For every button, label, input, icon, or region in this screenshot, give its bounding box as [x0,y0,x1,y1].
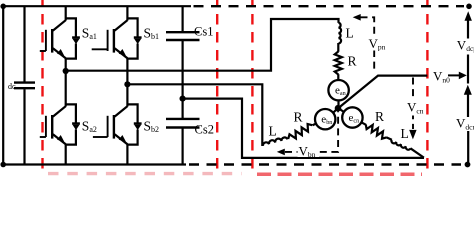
svg-text:L: L [346,26,354,41]
wire S_b2 emitter to bottom bus [126,144,128,165]
measure V_bn dashed path with arrow [285,112,338,152]
node A junction dot [63,68,69,74]
node: bottom-right dot at end of dashed bus [465,162,471,168]
svg-text:Cs1: Cs1 [194,24,213,38]
wire S_b1 gate lead [92,48,108,50]
wire e_an to star node [337,99,339,108]
svg-text:R: R [294,110,303,125]
wire S_a1 collector [65,6,67,20]
wire S_b1 collector [126,6,128,20]
wire neutral diagonal from star node [338,76,427,109]
svg-text:L: L [269,123,277,138]
wire L to bottom corner phase C [410,148,424,157]
wire S_a2 emitter to bottom bus [65,144,67,165]
wire S_a1 emitter to node A [65,58,67,72]
transistor S_b2 (IGBT with antiparallel diode) [108,104,142,144]
wire: top dc bus solid [3,5,191,7]
wire phase B from node B [127,84,262,146]
measure V_cn dashed arrow [412,78,414,130]
capacitor dc-link (left) [14,6,35,164]
svg-text:L: L [401,126,409,141]
wire: bottom dc bus solid [3,163,186,165]
measure V_n0 arrow [448,74,461,76]
wire S_b2 gate lead [93,136,108,138]
resistor R phase A [335,52,342,75]
capacitor Cs1 [166,6,200,118]
svg-text:Cs2: Cs2 [195,122,214,136]
svg-text:R: R [375,109,384,124]
wire star to e_bn [327,108,339,119]
inductor L phase A [339,23,342,44]
wire R to e_an [337,74,339,81]
wire S_b2 collector from node B [126,84,128,107]
source e_an [328,80,348,100]
source e_bn [315,109,335,129]
node B junction dot [124,81,130,87]
wire neutral from capacitor midpoint [183,99,424,158]
inductor L phase C [391,140,410,150]
star node dot [335,105,342,112]
wire S_a2 collector from node A [65,71,67,107]
wire e_cn to resistor [352,118,366,125]
capacitor midpoint junction dot [180,96,186,102]
resistor R phase C [366,125,387,139]
wire S_b1 emitter to node B [126,58,128,85]
node: bottom-left junction dot [0,162,6,168]
node: top-right dot at end of dashed bus [466,4,472,10]
red dashed boundary line (left box left edge) [41,0,43,173]
measure V_dc right column [465,11,472,20]
source e_cn [342,107,362,127]
svg-text:dc: dc [8,82,16,91]
svg-text:R: R [348,54,357,69]
wire phase A from node A up to inductor [66,19,339,71]
wire: top dc bus dashed continuation [194,5,465,7]
red dashed boundary line (right box right edge) [426,0,428,173]
salmon dashed bottom edge of load box [257,173,422,177]
red dashed boundary line (left box right edge) [216,0,218,173]
wire: bottom dc bus dashed continuation [189,163,461,165]
transistor S_a2 (IGBT with antiparallel diode) [46,104,80,144]
resistor R phase B [288,124,312,139]
wire R to L phase C [386,137,392,140]
measure V_pn dashed path with arrow [353,14,361,21]
pink dashed bottom edge of converter box [48,172,242,175]
red dashed boundary line (right box left edge) [251,0,253,176]
wire S_a1 gate lead [40,50,46,52]
wire between L and R phase A [337,43,339,52]
inductor L phase B [263,137,288,146]
capacitor Cs2 [166,119,200,165]
transistor S_a1 (IGBT with antiparallel diode) [46,18,80,58]
wire star to e_cn [338,108,352,117]
transistor S_b1 (IGBT with antiparallel diode) [108,18,142,58]
wire: left dc bus vertical [2,6,4,166]
node: top-left junction dot [0,4,6,10]
wire S_a2 gate lead [40,136,46,138]
wire e_bn to resistor [313,119,326,125]
